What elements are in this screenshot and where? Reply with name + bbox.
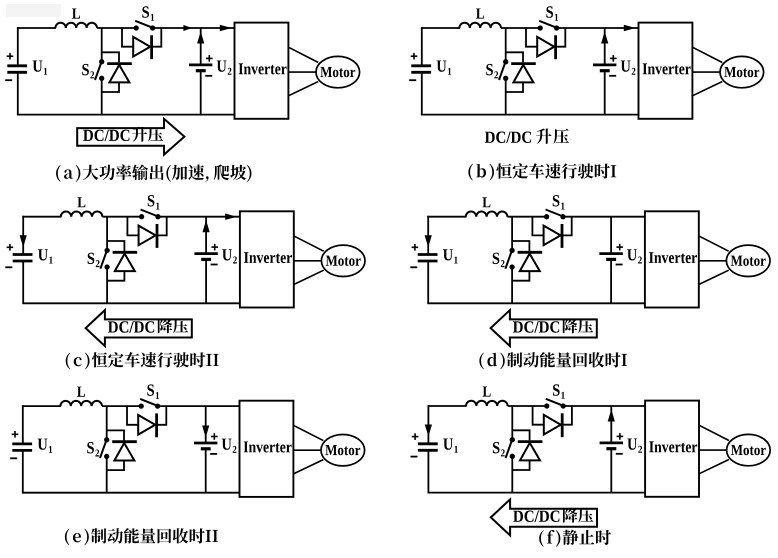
wire: inverter to motor phase A (panel b) (692, 47, 722, 62)
label S2 (panel e) (87, 442, 94, 454)
label S1 (panel f) (553, 384, 560, 396)
switch S1 lever (panel b) (539, 21, 557, 28)
diode D2 anti-parallel with S2, cathode bar (panel b) (511, 62, 536, 65)
switch S1 lever (panel d) (546, 210, 564, 217)
inverter block (panel e) (240, 401, 294, 497)
inverter block (panel c) (240, 211, 294, 307)
wire: D2 branch bottom (panel e) (107, 461, 124, 471)
battery U2 negative plate (panel d) (606, 258, 616, 261)
label Motor (panel a) (320, 67, 355, 77)
label L (panel a) (72, 9, 80, 19)
wire: inverter to motor phase C (panel a) (288, 82, 318, 96)
diode D1 anti-parallel with S1, triangle (panel a) (133, 37, 150, 57)
diode D1 cathode bar (panel b) (554, 35, 557, 59)
switch S1 contact dots (panel b) (538, 25, 543, 30)
switch S1 contact dots (panel a) (134, 25, 139, 30)
wire: top rail from U1 to inductor L (panel a) (17, 27, 56, 29)
caption (d) 制动能量回收时I (479, 353, 484, 370)
switch S2 lever (panel b) (499, 62, 506, 80)
wire: top rail from U1 to inductor L (panel b) (421, 27, 460, 29)
polarity + of U1 (panel f) (412, 436, 419, 438)
diode D1 anti-parallel with S1, triangle (panel f) (544, 415, 561, 435)
voltage arrow (up) at U2 (panel b) (601, 31, 608, 43)
wire: S2 to bottom rail (panel a) (101, 78, 103, 114)
label L (panel c) (77, 197, 85, 207)
label L (panel f) (483, 387, 491, 397)
wire: D2 branch top (panel e) (107, 430, 124, 440)
label Inverter (panel a) (239, 63, 287, 74)
voltage arrow (up) at U2 (panel f) (608, 409, 615, 421)
label S1 (panel b) (546, 6, 553, 18)
wire: top rail from S1 to Inverter (panel f) (563, 405, 645, 407)
current arrow on top rail before Inverter (panel c) (225, 214, 237, 220)
switch S1 lever (panel c) (141, 210, 159, 217)
current arrow (down) on left rail toward U1 (panel f) (425, 425, 432, 437)
label DC/DC降压 (513, 511, 559, 523)
diode D2 anti-parallel with S2, cathode bar (panel f) (518, 440, 543, 443)
wire: D1 branch right (panel c) (157, 217, 167, 236)
wire: D1 branch left (panel b) (526, 28, 537, 47)
wire: D1 branch left (panel e) (127, 406, 138, 425)
battery U2 positive plate (panel d) (599, 252, 622, 255)
polarity - of U1 (panel a) (5, 79, 12, 81)
wire: D2 branch bottom (panel b) (506, 82, 523, 92)
wire: top rail from U1 to inductor L (panel c) (22, 216, 61, 218)
wire: D2 branch top (panel a) (102, 52, 119, 62)
label U2 (panel d) (627, 249, 637, 260)
voltage arrow (up) at U2 (panel c) (203, 220, 210, 232)
diode D1 cathode bar (panel a) (150, 35, 153, 59)
wire: D1 branch right (panel d) (562, 217, 572, 236)
switch S1 lever (panel a) (135, 21, 153, 28)
current arrow (down) on left rail toward U1 (panel d) (425, 235, 432, 247)
wire: D2 branch top (panel b) (506, 52, 523, 62)
wire: D2 branch bottom (panel d) (512, 271, 529, 281)
polarity + of U2 (panel e) (211, 436, 218, 438)
wire: top rail from L to S1 (panel f) (508, 405, 547, 407)
label U1 (panel c) (38, 249, 48, 260)
switch S1 contact dots (panel f) (544, 403, 549, 408)
wire: D1 branch left (panel c) (127, 217, 138, 236)
capacitor U1 (panel b) (411, 64, 431, 67)
wire: top rail from S1 to Inverter (panel e) (158, 405, 240, 407)
diode D2 triangle (panel a) (109, 65, 129, 83)
switch S2 lever (panel a) (95, 62, 102, 80)
label DC/DC降压 (108, 321, 154, 333)
label Motor (panel d) (731, 256, 766, 266)
diode D1 cathode bar (panel e) (155, 413, 158, 437)
wire: top rail from L to S1 (panel a) (97, 27, 136, 29)
diode D1 anti-parallel with S1, triangle (panel b) (537, 37, 554, 57)
label U2 (panel a) (217, 61, 227, 72)
polarity - of U2 (panel c) (211, 264, 218, 266)
diode D2 triangle (panel f) (520, 443, 540, 461)
polarity - of U1 (panel f) (411, 456, 418, 458)
label DC/DC升压 (485, 132, 531, 144)
wire: inverter to motor phase A (panel a) (288, 47, 318, 62)
label S2 (panel f) (493, 442, 500, 454)
wire: D2 branch top (panel d) (512, 241, 529, 251)
wire: inverter to motor phase A (panel f) (699, 425, 729, 440)
label U1 (panel d) (443, 249, 453, 260)
wire: U2 branch vertical (panel e) (205, 406, 207, 443)
wire: S2 to bottom rail (panel b) (505, 78, 507, 114)
wire: switch node down to S2 (panel d) (511, 217, 513, 251)
wire: left rail (U1 branch) (panel b) (421, 27, 423, 66)
DC/DC boost flow arrow (right) (77, 119, 184, 155)
label U2 (panel c) (222, 249, 232, 260)
label S1 (panel d) (553, 195, 560, 207)
current arrow on top rail before Inverter (panel b) (624, 25, 636, 31)
inverter block (panel b) (639, 23, 693, 119)
wire: top rail from S1 to Inverter (panel c) (158, 216, 240, 218)
diode D1 anti-parallel with S1, triangle (panel c) (139, 226, 156, 246)
motor M (panel a) (316, 56, 360, 87)
motor M (panel e) (321, 435, 365, 466)
polarity - of U1 (panel c) (5, 266, 12, 268)
label Inverter (panel d) (649, 252, 697, 263)
wire: inverter to motor phase B (panel a) (288, 71, 316, 73)
wire: left rail (U1 branch) (panel c) (22, 216, 24, 255)
battery U2 positive plate (panel c) (194, 252, 217, 255)
battery U2 positive plate (panel f) (600, 441, 623, 444)
label L (panel b) (476, 9, 484, 19)
switch S1 lever (panel f) (546, 399, 564, 406)
wire: top rail from S1 to Inverter (panel d) (563, 216, 645, 218)
wire: inverter to motor phase B (panel b) (692, 71, 720, 73)
wire: inverter to motor phase B (panel e) (293, 449, 321, 451)
wire: D2 branch bottom (panel a) (102, 82, 119, 92)
capacitor U1 (panel e) (12, 442, 32, 445)
label Motor (panel b) (724, 67, 759, 77)
wire: inverter to motor phase A (panel c) (294, 236, 324, 251)
wire: U2 branch vertical (panel c) (205, 217, 207, 254)
label U1 (panel a) (33, 61, 43, 72)
label S2 (panel b) (486, 64, 493, 75)
label Inverter (panel f) (649, 441, 697, 452)
inverter block (panel f) (645, 401, 699, 497)
label Inverter (panel b) (643, 63, 691, 74)
polarity - of U2 (panel f) (616, 453, 623, 455)
switch S1 lever (panel e) (140, 399, 158, 406)
wire: bottom rail (panel f) (428, 492, 646, 494)
wire: switch node down to S2 (panel e) (106, 406, 108, 440)
caption (a) 大功率输出(加速,爬坡) (56, 165, 61, 182)
label DC/DC降压 (513, 321, 559, 333)
faint scan artifact top-left (6, 4, 61, 17)
battery U2 negative plate (panel c) (201, 258, 211, 261)
wire: left rail (U1 branch) (panel e) (22, 405, 24, 444)
diode D1 cathode bar (panel f) (561, 413, 564, 437)
polarity - of U1 (panel d) (410, 266, 417, 268)
label U2 (panel f) (627, 439, 637, 450)
voltage arrow (down) at U2 (panel e) (202, 426, 209, 438)
switch S1 contact dots (panel e) (139, 403, 144, 408)
wire: inverter to motor phase A (panel d) (699, 236, 729, 251)
label L (panel d) (482, 197, 490, 207)
label Inverter (panel c) (244, 252, 292, 263)
inductor L (panel e) (60, 401, 102, 406)
polarity + of U1 (panel c) (7, 246, 14, 248)
wire: bottom rail (panel e) (22, 492, 240, 494)
wire: D1 branch left (panel a) (122, 28, 133, 47)
wire: D2 branch top (panel f) (512, 430, 529, 440)
wire: D1 branch right (panel a) (152, 28, 162, 47)
label S1 (panel a) (142, 6, 149, 18)
label Motor (panel f) (731, 445, 766, 455)
caption (b) 恒定车速行驶时I (468, 164, 473, 181)
diode D2 anti-parallel with S2, cathode bar (panel d) (518, 251, 543, 254)
polarity + of U2 (panel b) (610, 57, 617, 59)
battery U2 negative plate (panel b) (600, 69, 610, 72)
wire: S2 to bottom rail (panel f) (511, 456, 513, 492)
diode D1 cathode bar (panel d) (561, 224, 564, 248)
polarity + of U1 (panel b) (411, 55, 418, 57)
wire: bottom rail (panel a) (17, 114, 235, 116)
battery U2 positive plate (panel a) (189, 64, 212, 67)
battery U2 negative plate (panel f) (606, 447, 616, 450)
wire: D1 branch right (panel f) (562, 406, 572, 425)
wire: inverter to motor phase B (panel f) (699, 449, 727, 451)
label S2 (panel c) (88, 253, 95, 265)
wire: left rail (U1 branch) (panel d) (427, 216, 429, 255)
polarity + of U2 (panel d) (616, 246, 623, 248)
label U2 (panel b) (621, 61, 631, 72)
wire: D1 branch right (panel b) (556, 28, 566, 47)
wire: top rail from L to S1 (panel d) (507, 216, 546, 218)
label L (panel e) (77, 387, 85, 397)
DC/DC buck flow arrow (left) (491, 499, 597, 535)
wire: top rail from S1 to Inverter (panel b) (557, 27, 639, 29)
DC/DC buck flow arrow (left) (86, 310, 192, 346)
label U1 (panel f) (443, 439, 453, 450)
wire: D1 branch left (panel d) (532, 217, 543, 236)
switch S2 lever (panel c) (100, 251, 107, 269)
diode D2 triangle (panel c) (115, 254, 135, 272)
switch S2 lever (panel e) (100, 440, 107, 458)
label U1 (panel e) (38, 439, 48, 450)
polarity - of U1 (panel e) (10, 457, 17, 459)
inductor L (panel f) (466, 401, 508, 406)
wire: S2 to bottom rail (panel c) (106, 267, 108, 303)
wire: inverter to motor phase A (panel e) (293, 425, 323, 440)
label S1 (panel c) (148, 195, 155, 207)
capacitor U1 (panel d) (418, 253, 438, 256)
wire: top rail from U1 to inductor L (panel f) (428, 405, 467, 407)
wire: D1 branch right (panel e) (157, 406, 167, 425)
polarity - of U2 (panel e) (210, 453, 217, 455)
wire: U2 branch vertical (panel d) (610, 217, 612, 254)
motor M (panel c) (321, 245, 365, 276)
motor M (panel d) (726, 245, 770, 276)
inductor L (panel d) (466, 211, 508, 216)
wire: switch node down to S2 (panel a) (101, 28, 103, 62)
wire: bottom rail (panel b) (421, 114, 639, 116)
wire: D2 branch bottom (panel f) (512, 460, 529, 470)
wire: bottom rail (panel c) (22, 302, 240, 304)
inductor L (panel a) (55, 23, 97, 28)
voltage arrow (up) at U2 (panel a) (197, 31, 204, 43)
diode D2 triangle (panel d) (520, 254, 540, 272)
switch S2 lever (panel f) (506, 440, 512, 458)
wire: top rail from L to S1 (panel c) (102, 216, 141, 218)
wire: top rail from U1 to inductor L (panel d) (427, 216, 466, 218)
polarity + of U1 (panel d) (412, 246, 419, 248)
polarity + of U1 (panel a) (7, 55, 14, 57)
switch S2 contact dots (panel d) (509, 248, 514, 253)
wire: bottom rail (panel d) (427, 302, 645, 304)
polarity + of U2 (panel a) (206, 57, 213, 59)
wire: top rail from L to S1 (panel e) (102, 405, 141, 407)
diode D2 anti-parallel with S2, cathode bar (panel a) (107, 62, 132, 65)
wire: inverter to motor phase C (panel f) (699, 460, 729, 474)
diode D2 anti-parallel with S2, cathode bar (panel c) (113, 251, 138, 254)
switch S2 contact dots (panel e) (104, 437, 109, 442)
label U2 (panel e) (222, 439, 232, 450)
current arrow on top rail before Inverter (panel a) (220, 25, 232, 31)
capacitor U1 (panel f) (418, 442, 438, 445)
wire: inverter to motor phase C (panel e) (293, 460, 323, 474)
caption (c) 恒定车速行驶时II (66, 353, 71, 370)
wire: inverter to motor phase B (panel c) (294, 260, 322, 262)
battery U2 positive plate (panel e) (194, 442, 217, 445)
wire: switch node down to S2 (panel f) (511, 406, 513, 440)
diode D1 anti-parallel with S1, triangle (panel e) (138, 415, 155, 435)
wire: top rail from L to S1 (panel b) (501, 27, 540, 29)
motor M (panel b) (720, 56, 764, 87)
diode D1 cathode bar (panel c) (156, 224, 159, 248)
caption (e) 制动能量回收时II (65, 529, 70, 546)
wire: top rail from U1 to inductor L (panel e) (22, 405, 61, 407)
wire: U2 branch vertical (panel a) (200, 28, 202, 65)
label S2 (panel d) (493, 253, 500, 265)
switch S2 contact dots (panel b) (503, 59, 508, 64)
wire: inverter to motor phase C (panel d) (699, 270, 729, 284)
motor M (panel f) (727, 434, 771, 465)
wire: inverter to motor phase C (panel c) (294, 270, 324, 284)
wire: inverter to motor phase B (panel d) (699, 260, 727, 262)
wire: U2 branch vertical (panel b) (604, 28, 606, 65)
wire: top rail from S1 to Inverter (panel a) (153, 27, 235, 29)
capacitor U1 (panel c) (13, 253, 33, 256)
label Motor (panel c) (326, 256, 361, 266)
wire: switch node down to S2 (panel b) (505, 28, 507, 62)
polarity + of U1 (panel e) (12, 433, 19, 435)
polarity - of U2 (panel a) (205, 75, 212, 77)
diode D2 triangle (panel e) (114, 443, 134, 461)
switch S2 contact dots (panel a) (99, 59, 104, 64)
wire: U2 branch vertical (panel f) (610, 406, 612, 443)
label Inverter (panel e) (244, 442, 292, 453)
switch S2 contact dots (panel f) (510, 437, 515, 442)
label U1 (panel b) (437, 61, 447, 72)
switch S1 contact dots (panel d) (544, 214, 549, 219)
battery U2 negative plate (panel a) (196, 69, 206, 72)
polarity - of U1 (panel b) (409, 79, 416, 81)
caption (f) 静止时 (539, 530, 544, 547)
label Motor (panel e) (325, 445, 360, 455)
polarity - of U2 (panel b) (609, 75, 616, 77)
wire: D1 branch left (panel f) (533, 406, 544, 425)
inverter block (panel d) (645, 211, 699, 307)
diode D2 triangle (panel b) (513, 65, 533, 83)
polarity - of U2 (panel d) (616, 264, 623, 266)
capacitor U1 (panel a) (7, 64, 27, 67)
polarity + of U2 (panel f) (617, 435, 624, 437)
wire: S2 to bottom rail (panel e) (106, 456, 108, 492)
inverter block (panel a) (235, 23, 289, 119)
diode D1 anti-parallel with S1, triangle (panel d) (544, 226, 561, 246)
inductor L (panel b) (459, 23, 501, 28)
inductor L (panel c) (61, 211, 103, 216)
polarity + of U2 (panel c) (211, 246, 218, 248)
label S2 (panel a) (82, 64, 89, 75)
diode D2 anti-parallel with S2, cathode bar (panel e) (112, 440, 137, 443)
wire: D2 branch bottom (panel c) (107, 271, 124, 281)
switch S1 contact dots (panel c) (139, 214, 144, 219)
label S1 (panel e) (147, 384, 154, 396)
current arrow (down) on left rail toward U1 (panel c) (20, 235, 27, 247)
wire: S2 to bottom rail (panel d) (511, 267, 513, 303)
label DC/DC升压 (83, 130, 129, 142)
current arrow on top rail after S1 (panel a) (183, 25, 191, 31)
wire: left rail (U1 branch) (panel f) (427, 405, 429, 444)
wire: switch node down to S2 (panel c) (106, 217, 108, 251)
wire: left rail (U1 branch) (panel a) (17, 27, 19, 66)
wire: inverter to motor phase C (panel b) (692, 82, 722, 96)
DC/DC buck flow arrow (left) (491, 310, 597, 346)
wire: D2 branch top (panel c) (107, 241, 124, 251)
switch S2 contact dots (panel c) (104, 248, 109, 253)
switch S2 lever (panel d) (505, 251, 512, 269)
battery U2 positive plate (panel b) (593, 64, 616, 67)
battery U2 negative plate (panel e) (201, 447, 211, 450)
